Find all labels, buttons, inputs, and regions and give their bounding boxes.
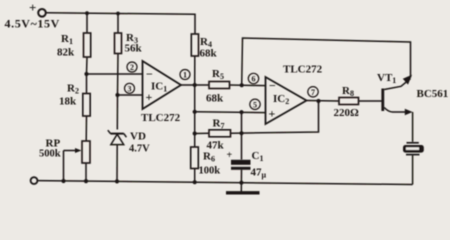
node R7 left [193, 131, 197, 135]
piezo buzzer HTD [403, 143, 424, 155]
resistor R6 [191, 147, 199, 169]
wire node A to IC1 inverting input [87, 73, 143, 75]
wire RP bottom to rail [85, 163, 87, 181]
svg-text:+: + [269, 107, 276, 121]
wire C1 to rail and ground [240, 170, 242, 193]
wire top rail [46, 13, 195, 34]
wire R1 column [86, 13, 88, 33]
node R1 top [85, 11, 89, 15]
wire buzzer to rail [412, 156, 414, 185]
svg-text:7: 7 [311, 88, 315, 97]
pin 1 label [180, 70, 190, 80]
wire R1 to node A [86, 57, 89, 74]
node R7 at C1 column [239, 131, 243, 135]
node R3 top [116, 12, 120, 16]
transistor VT1 [377, 72, 448, 115]
svg-text:BC561: BC561 [417, 88, 449, 100]
svg-text:56k: 56k [125, 43, 143, 55]
pin 3 label [125, 83, 135, 93]
svg-text:−: − [269, 79, 276, 93]
terminal + V supply [29, 0, 46, 17]
pin 5 label [250, 99, 260, 109]
wire R5 to IC2 inverting input [230, 84, 266, 87]
svg-text:68k: 68k [200, 48, 218, 60]
node A (pin2 net) [84, 72, 88, 76]
wire RP wiper down to rail [63, 151, 65, 182]
svg-text:68k: 68k [206, 93, 224, 105]
ground bar [226, 191, 260, 194]
svg-text:500k: 500k [39, 149, 61, 160]
node RP wiper on rail [61, 179, 65, 183]
node B (pin3 net) [115, 93, 119, 97]
wire R4 to output node [194, 56, 196, 85]
capacitor C1 [227, 150, 267, 180]
wire R2 to RP [85, 116, 87, 141]
wire R6 to rail [194, 169, 196, 183]
svg-text:+: + [29, 0, 36, 15]
svg-text:3: 3 [128, 84, 132, 93]
svg-text:4.5V~15V: 4.5V~15V [5, 17, 60, 31]
node pin5 at column [193, 110, 197, 114]
node VD on rail [115, 179, 119, 183]
node pin5 at C1 column [239, 110, 243, 114]
wire IC1 output [181, 84, 209, 86]
resistor R5 [209, 82, 230, 89]
svg-text:100k: 100k [199, 166, 221, 177]
resistor R3 [115, 33, 122, 54]
potentiometer RP [39, 138, 90, 164]
svg-text:TLC272: TLC272 [141, 112, 181, 124]
wire IC2 output [307, 100, 340, 103]
resistor R2 [83, 94, 90, 117]
wire node B to IC1 non-inverting input [118, 94, 143, 96]
zener diode VD [108, 130, 150, 154]
svg-text:47k: 47k [207, 140, 225, 152]
pin 6 label [248, 73, 258, 83]
resistor R4 [191, 34, 198, 56]
wire collector to buzzer [412, 112, 414, 142]
svg-text:18k: 18k [59, 96, 77, 108]
wire R3 column [117, 14, 119, 34]
svg-text:2: 2 [130, 63, 134, 72]
svg-text:4.7V: 4.7V [129, 144, 150, 155]
svg-text:6: 6 [252, 75, 256, 84]
svg-text:5: 5 [253, 100, 257, 109]
wire R3 down to node B crossing pin2 wire [117, 54, 120, 96]
wire R7 to IC2 output feedback [231, 102, 319, 134]
svg-text:+: + [227, 150, 233, 161]
pin 2 label [127, 62, 137, 72]
pin 7 label [308, 87, 318, 97]
node RP bottom on rail [84, 179, 88, 183]
resistor R8 [339, 98, 359, 105]
wire node B down to zener [116, 95, 118, 130]
bottom terminal [31, 177, 38, 184]
node output / R4 [193, 83, 197, 87]
wire feedback pin6 up and over to transistor [242, 38, 411, 85]
wire C1 column [241, 112, 243, 159]
node IC2 output [316, 99, 320, 103]
wire column under output node [194, 85, 196, 147]
op-amp IC1 [141, 61, 181, 124]
op-amp IC2 [266, 64, 323, 125]
svg-text:−: − [146, 67, 153, 81]
node feedback column top of pin6 [240, 83, 244, 87]
svg-text:1: 1 [183, 71, 187, 80]
svg-text:VD: VD [130, 131, 146, 143]
wire zener to rail [116, 145, 118, 182]
wire R8 to base [359, 100, 382, 102]
svg-text:220Ω: 220Ω [334, 107, 360, 119]
resistor R7 [209, 130, 231, 137]
wire node A down to R2 [86, 74, 88, 94]
resistor R1 [84, 33, 91, 57]
node C1 on rail [239, 181, 243, 185]
node R6 on rail [193, 180, 197, 184]
svg-text:TLC272: TLC272 [283, 64, 323, 76]
svg-text:82k: 82k [57, 47, 75, 59]
wire pin5 net [195, 111, 266, 114]
wire bottom rail [37, 181, 412, 185]
wire R7 net left [195, 132, 209, 134]
